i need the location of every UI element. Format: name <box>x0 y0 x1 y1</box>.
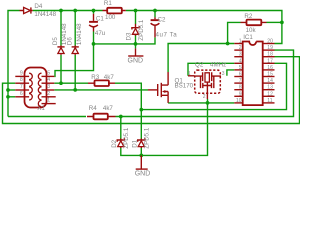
capacitor C1 <box>89 14 106 37</box>
IC1 pin 1 <box>234 43 242 45</box>
junction C1/top rail <box>92 9 96 13</box>
IC1 pin 3 <box>234 56 242 58</box>
junction D5/top rail <box>59 9 63 13</box>
svg-text:13: 13 <box>267 85 273 91</box>
svg-text:11: 11 <box>267 98 272 104</box>
wire GND1 row C1 to C2 <box>94 37 156 44</box>
IC1 pin 10 <box>234 102 242 104</box>
X1 pin 9 <box>29 73 32 79</box>
junction D1/pin17 row <box>139 108 143 112</box>
resistor R2 <box>241 13 267 34</box>
junction GND2/bottom row <box>139 154 143 158</box>
junction R2/pin20 drop <box>280 21 284 25</box>
svg-text:1: 1 <box>47 98 50 104</box>
X1 pin 6 <box>29 94 32 100</box>
junction D2/R4 row <box>119 115 123 119</box>
svg-text:Q2: Q2 <box>195 62 204 69</box>
connector X1 DB9 <box>25 68 47 113</box>
wire R2 right to rail drop <box>267 21 282 23</box>
IC1 pin 14 <box>263 82 275 84</box>
svg-text:ZPD5.1: ZPD5.1 <box>143 127 150 149</box>
X1 pin 3 <box>38 87 41 93</box>
svg-text:9: 9 <box>239 91 242 97</box>
svg-text:C1: C1 <box>96 16 104 23</box>
junction D5/R3 row <box>59 81 63 85</box>
svg-text:IC1: IC1 <box>243 34 253 41</box>
svg-text:4k7: 4k7 <box>103 105 114 112</box>
svg-text:17: 17 <box>267 58 273 64</box>
svg-text:5: 5 <box>47 70 50 76</box>
svg-text:D5: D5 <box>52 37 59 45</box>
svg-text:1N4148: 1N4148 <box>34 11 56 18</box>
wire gate row X1 pin3 to Q1 gate <box>54 89 148 91</box>
IC1 pin 12 <box>263 95 275 97</box>
svg-text:18: 18 <box>267 52 273 58</box>
X1 pin 4 <box>38 80 41 86</box>
wire D2 top from R4 row <box>120 117 122 140</box>
junction C1/GND1 row <box>92 42 96 46</box>
IC1 pin 4 <box>234 62 242 64</box>
svg-text:6: 6 <box>239 72 242 78</box>
svg-text:C2: C2 <box>158 17 166 24</box>
svg-text:1: 1 <box>239 39 242 45</box>
svg-text:1N4148: 1N4148 <box>76 23 83 45</box>
wire R4 row left <box>8 116 86 118</box>
wire D5 top <box>60 11 62 46</box>
wire D6 top <box>74 11 76 46</box>
IC1 pin 9 <box>234 95 242 97</box>
svg-text:D6: D6 <box>67 37 74 45</box>
svg-text:GND: GND <box>128 58 144 65</box>
IC1 pin 11 <box>263 102 275 104</box>
junction D3/GND1 row <box>134 42 138 46</box>
wire resonator pin1 to IC pin4 <box>188 63 234 76</box>
svg-text:4: 4 <box>239 58 242 64</box>
wire R3 right to D1 column <box>115 83 141 139</box>
IC1 pin 19 <box>263 49 275 51</box>
svg-text:R4: R4 <box>89 105 97 112</box>
diode D5 <box>52 23 68 55</box>
svg-text:19: 19 <box>267 45 273 51</box>
junction D6/gate row <box>73 88 77 92</box>
IC1 pin 18 <box>263 56 275 58</box>
svg-text:2: 2 <box>47 91 50 97</box>
wire X1 pin8 to IC pin18 <box>3 57 300 124</box>
IC1 pin 5 <box>234 69 242 71</box>
wire D3 top stub <box>135 11 137 25</box>
zener diode D2 <box>111 127 130 149</box>
wire X1 pin7 to left rail <box>8 89 15 91</box>
wire D2 bottom GND row and resonator drop <box>121 99 208 155</box>
IC1 pin 2 <box>234 49 242 51</box>
transistor Q1 BS170 <box>148 72 194 103</box>
svg-text:BS170: BS170 <box>175 83 194 90</box>
wire left rail from top rail down to R4 row <box>8 11 20 117</box>
wire top rail R1 to IC pin20 drop <box>126 11 282 44</box>
ground GND1 <box>128 48 144 64</box>
svg-text:2: 2 <box>239 45 242 51</box>
svg-text:ZPD5.1: ZPD5.1 <box>138 19 145 41</box>
X1 pin 1 <box>38 100 41 106</box>
wire GND row Q1 source to IC pin10 <box>168 102 234 104</box>
svg-text:3: 3 <box>239 52 242 58</box>
IC1 pin 6 <box>234 76 242 78</box>
svg-text:9: 9 <box>20 70 23 76</box>
svg-text:R2: R2 <box>244 13 252 20</box>
resistor R3 <box>88 74 115 86</box>
svg-text:15: 15 <box>267 72 273 78</box>
junction resonator/GND row <box>206 101 210 105</box>
svg-text:100: 100 <box>105 14 116 21</box>
svg-text:ZPD5.1: ZPD5.1 <box>123 127 130 149</box>
resistor R4 <box>87 105 116 119</box>
junction X1.6/left rail <box>6 95 10 99</box>
IC1 pin 7 <box>234 82 242 84</box>
wire R4 row right to IC pin19 <box>116 50 294 116</box>
svg-text:R3: R3 <box>91 74 99 81</box>
wire resonator pin3 to IC pin5 <box>227 70 234 76</box>
junction R2 drop/pin1 row <box>226 42 230 46</box>
junction X1.7/left rail <box>6 88 10 92</box>
zener diode D3 <box>126 19 145 41</box>
wire C1 top stub <box>93 11 95 14</box>
wire D6 bottom to gate row <box>74 55 76 90</box>
svg-text:7: 7 <box>239 78 242 84</box>
wire Q1 drain up <box>168 44 234 73</box>
svg-text:4u7 Ta: 4u7 Ta <box>156 32 178 39</box>
svg-text:2: 2 <box>203 94 206 100</box>
wire D5 bottom to R3 row <box>60 55 62 83</box>
resonator Q2 4MHz <box>188 62 226 101</box>
svg-text:7: 7 <box>20 84 23 90</box>
svg-text:16: 16 <box>267 65 273 71</box>
IC1 pin 15 <box>263 76 275 78</box>
svg-text:6: 6 <box>20 91 23 97</box>
wire C1 bottom to X1 pin5 <box>54 32 93 77</box>
diode D6 <box>67 23 83 55</box>
svg-text:1: 1 <box>188 71 191 77</box>
svg-text:D4: D4 <box>34 3 42 10</box>
svg-text:3: 3 <box>222 71 225 77</box>
junction D3/top rail <box>134 9 138 13</box>
svg-text:D3: D3 <box>126 32 133 40</box>
svg-text:5: 5 <box>239 65 242 71</box>
svg-text:D2: D2 <box>111 139 118 147</box>
zener diode D1 <box>132 127 151 149</box>
svg-text:4: 4 <box>47 77 50 83</box>
svg-text:D1: D1 <box>132 139 139 147</box>
X1 pin 2 <box>38 94 41 100</box>
junction D6/top rail <box>73 9 77 13</box>
svg-text:12: 12 <box>267 91 273 97</box>
wire D3 bottom to GND1 <box>135 35 137 49</box>
svg-text:20: 20 <box>267 39 273 45</box>
wire D1 bottom <box>140 148 142 155</box>
IC1 pin 17 <box>263 62 275 64</box>
IC1 pin 8 <box>234 89 242 91</box>
svg-text:4k7: 4k7 <box>104 74 115 81</box>
svg-text:8: 8 <box>20 77 23 83</box>
IC1 pin 16 <box>263 69 275 71</box>
X1 pin 7 <box>29 87 32 93</box>
X1 pin 5 <box>38 73 41 79</box>
wire R2 left drop to pin1 row <box>228 22 241 43</box>
svg-text:14: 14 <box>267 78 273 84</box>
svg-text:4MHz: 4MHz <box>210 62 226 69</box>
wire X1 pin4 to R3 <box>54 82 88 84</box>
wire top rail segment D4 to R1 <box>33 10 103 12</box>
svg-text:GND: GND <box>135 171 151 178</box>
IC1 20-pin DIP <box>243 34 263 105</box>
wire D1 junction to IC pin17 <box>141 63 286 109</box>
IC1 pin 13 <box>263 89 275 91</box>
svg-text:R1: R1 <box>104 0 112 7</box>
svg-text:10: 10 <box>236 98 242 104</box>
ground GND2 <box>135 155 151 177</box>
wire X1 pin6 to left rail <box>8 96 15 98</box>
IC1 pin 20 <box>263 43 275 45</box>
resistor R1 <box>103 0 126 21</box>
svg-text:8: 8 <box>239 85 242 91</box>
junction C2/top rail <box>153 9 157 13</box>
diode D4 <box>20 3 57 18</box>
svg-text:47u: 47u <box>95 30 106 37</box>
X1 pin 8 <box>29 80 32 86</box>
svg-text:3: 3 <box>47 84 50 90</box>
wire C2 top stub <box>154 11 156 18</box>
capacitor C2 <box>151 17 178 39</box>
